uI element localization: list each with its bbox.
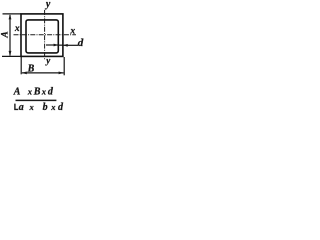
svg-text:B: B	[33, 87, 41, 98]
svg-text:x: x	[27, 87, 33, 97]
svg-text:y: y	[45, 0, 51, 10]
svg-text:x: x	[14, 24, 20, 34]
svg-text:x: x	[41, 87, 47, 97]
svg-text:A: A	[1, 31, 11, 38]
svg-text:a: a	[19, 102, 24, 113]
svg-text:x: x	[50, 102, 56, 112]
svg-text:d: d	[78, 37, 84, 49]
svg-text:x: x	[29, 102, 35, 112]
svg-text:b: b	[43, 102, 48, 113]
svg-text:A: A	[13, 87, 21, 98]
svg-text:B: B	[27, 63, 35, 74]
svg-text:x: x	[69, 26, 75, 36]
